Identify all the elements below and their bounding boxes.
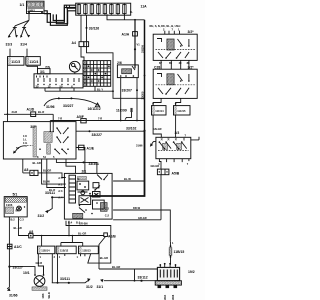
svg-text:BL-W: BL-W xyxy=(43,180,50,184)
connector A1/D xyxy=(4,108,53,132)
central unit 2/1 xyxy=(64,170,112,219)
svg-text:1L: 1L xyxy=(130,10,133,14)
wires between relay boxes xyxy=(159,60,190,69)
wire DR-W from 2/1 to right xyxy=(113,206,170,242)
svg-text:1:L: 1:L xyxy=(23,138,27,142)
svg-text:10/6: 10/6 xyxy=(41,293,45,299)
svg-text:A:3: A:3 xyxy=(58,189,63,193)
headlamp 11B/13 xyxy=(77,246,99,259)
fusebox 11A xyxy=(76,3,147,15)
connector A9 xyxy=(19,217,104,238)
bulb top bus xyxy=(41,235,83,246)
relay box 3/2 upper xyxy=(153,27,197,60)
svg-text:GR-R: GR-R xyxy=(36,261,43,265)
svg-text:19/2: 19/2 xyxy=(188,270,195,274)
ground bus 33/111 31/2 xyxy=(52,277,93,289)
horn arrow 31/3 xyxy=(6,26,19,46)
svg-text:33/227: 33/227 xyxy=(92,133,102,137)
connector A1/C xyxy=(7,244,22,249)
ignition position table xyxy=(83,61,111,87)
svg-text:A1/A: A1/A xyxy=(122,32,130,36)
svg-text:11C/14: 11C/14 xyxy=(155,109,164,113)
headlamp 11B/14 xyxy=(38,246,56,283)
wire 1/1 to horns xyxy=(15,14,29,26)
connector A1/E xyxy=(76,145,95,173)
wire A5/B down to 19/2 xyxy=(160,175,162,220)
svg-text:2/6: 2/6 xyxy=(117,61,122,65)
svg-text:11B/15: 11B/15 xyxy=(174,250,185,254)
svg-text:A:5: A:5 xyxy=(58,176,63,180)
relay 19/2 xyxy=(155,263,195,300)
svg-text:11C/15: 11C/15 xyxy=(177,109,186,113)
svg-text:A1/C: A1/C xyxy=(14,245,22,249)
light switch 3/2 xyxy=(3,122,76,160)
svg-text:33/301: 33/301 xyxy=(89,162,99,166)
pins 5/1 bottom xyxy=(11,217,25,221)
svg-text:3/3: 3/3 xyxy=(175,131,180,135)
svg-text:31/3: 31/3 xyxy=(6,42,13,46)
relay 2/6 xyxy=(117,61,138,78)
svg-text:GR-BN: GR-BN xyxy=(79,222,88,226)
connector A8 on wire to 2/1 xyxy=(23,159,66,178)
svg-text:7-R: 7-R xyxy=(58,117,62,121)
svg-text:31/2: 31/2 xyxy=(86,285,93,289)
lamp 11C/4 xyxy=(26,49,41,66)
svg-text:33/207: 33/207 xyxy=(122,89,132,93)
svg-text:A4: A4 xyxy=(72,41,76,45)
wire GR-GR from 2/1 xyxy=(113,216,161,220)
svg-text:B:2: B:2 xyxy=(11,217,16,221)
svg-text:11B/12: 11B/12 xyxy=(60,248,69,252)
svg-text:31/96: 31/96 xyxy=(136,144,143,148)
wire thick trunk right xyxy=(90,20,146,196)
wire GR-BN from 2/1 xyxy=(66,221,111,263)
wire BL-Y bus xyxy=(45,86,114,92)
svg-text:A1/D: A1/D xyxy=(27,108,35,112)
ground 31/96 xyxy=(136,142,156,148)
pin labels 2/1 left xyxy=(58,176,63,200)
svg-text:33/227: 33/227 xyxy=(63,104,73,108)
svg-text:10/1: 10/1 xyxy=(23,271,30,275)
svg-text:33/111: 33/111 xyxy=(45,191,55,195)
wire 11C/15 to 3/3 xyxy=(175,115,177,137)
connector 1/1 xyxy=(20,1,45,13)
svg-text:11B/13: 11B/13 xyxy=(82,248,91,252)
pin labels 2/1 right xyxy=(68,206,110,224)
svg-text:DR-W: DR-W xyxy=(133,206,141,210)
svg-text:C:2: C:2 xyxy=(105,214,110,218)
headlamp 11B/12 xyxy=(56,246,76,283)
svg-text:SB-R: SB-R xyxy=(47,292,51,298)
svg-text:33/205: 33/205 xyxy=(140,91,144,99)
wire staircase 1/1 to fusebox (pair) xyxy=(53,8,76,24)
wire fuse to trunk xyxy=(107,10,145,46)
horn arrow 31/4 xyxy=(20,26,30,46)
relay box 3/2 lower C28 xyxy=(153,65,197,98)
wires to 2/1 A1 A3 xyxy=(42,159,66,192)
svg-text:A1/E: A1/E xyxy=(87,147,95,151)
svg-text:A:1: A:1 xyxy=(58,182,63,186)
switch 3/3 lower pins xyxy=(158,159,189,166)
svg-text:3/2*: 3/2* xyxy=(188,65,195,69)
rotary arc of switch xyxy=(13,145,33,153)
svg-text:GR-GR: GR-GR xyxy=(138,216,147,220)
svg-text:1:G: 1:G xyxy=(23,141,27,145)
svg-text:A8: A8 xyxy=(24,168,28,172)
svg-text:16/114:2: 16/114:2 xyxy=(88,107,101,111)
thick feed wire with connector A1/A xyxy=(122,19,138,69)
svg-text:31/96: 31/96 xyxy=(46,105,55,109)
connector A4 on main line xyxy=(72,41,89,47)
svg-text:33/111: 33/111 xyxy=(60,277,70,281)
svg-text:BL-GR: BL-GR xyxy=(33,161,41,165)
svg-text:BL-Y: BL-Y xyxy=(97,87,103,91)
svg-text:31/4: 31/4 xyxy=(20,42,27,46)
connector A5/F on feed wire xyxy=(50,108,145,132)
wire staircase 1/1 to fusebox (pair) xyxy=(44,5,76,25)
svg-text:C:3: C:3 xyxy=(105,206,110,210)
svg-text:RH, S, N, DK, NL, B, USA:: RH, S, N, DK, NL, B, USA: xyxy=(150,24,182,28)
svg-text:D: D xyxy=(78,177,80,181)
wire left trunk xyxy=(7,65,9,121)
svg-text:33/126: 33/126 xyxy=(89,26,99,30)
switch 3/3 xyxy=(156,131,199,159)
svg-text:11A: 11A xyxy=(141,4,148,8)
wire A1/B chain down to BL-GR bus xyxy=(99,237,160,270)
label 33/205 rotated xyxy=(140,45,144,53)
bulb 11B/15 xyxy=(169,241,184,265)
svg-text:1:8: 1:8 xyxy=(23,134,27,138)
svg-text:31/1: 31/1 xyxy=(97,285,104,289)
svg-text:V1: V1 xyxy=(137,43,141,47)
wire 33/227 splice to trunk xyxy=(76,130,145,137)
wire A1/C to ground 31/66 xyxy=(7,249,23,297)
svg-text:34-R: 34-R xyxy=(12,110,18,114)
instrument module 5/1 xyxy=(4,193,27,217)
svg-text:BL-R: BL-R xyxy=(38,110,44,114)
svg-text:BL-GR: BL-GR xyxy=(112,265,120,269)
label 33/205 rotated lower xyxy=(140,91,144,99)
ignition switch 3/1 xyxy=(34,61,83,88)
svg-text:X: X xyxy=(71,84,73,88)
svg-text:31/2: 31/2 xyxy=(38,214,45,218)
wire 33/501 xyxy=(56,159,99,174)
svg-text:A1/B: A1/B xyxy=(108,234,116,238)
node 33/207 wires from 2/6 xyxy=(120,78,138,122)
connector A5/B xyxy=(151,159,180,176)
lamp 11C/14 xyxy=(152,98,167,115)
svg-text:11B/14: 11B/14 xyxy=(41,248,50,252)
svg-text:33/205: 33/205 xyxy=(140,45,144,53)
lamp 11C/3 xyxy=(8,49,25,66)
svg-text:33/227: 33/227 xyxy=(13,265,23,269)
wire 5/1 to A1/C xyxy=(9,217,21,244)
wire 2/1 pin to BL-GR bus xyxy=(68,221,86,237)
svg-text:11C/3: 11C/3 xyxy=(11,60,20,64)
svg-text:A5/B: A5/B xyxy=(172,172,180,176)
svg-text:11C/99: 11C/99 xyxy=(116,109,127,113)
svg-text:11C/4: 11C/4 xyxy=(29,60,38,64)
svg-text:C28: C28 xyxy=(154,65,160,69)
svg-text:33/102: 33/102 xyxy=(126,127,136,131)
svg-text:33/112: 33/112 xyxy=(138,275,148,279)
svg-text:BL-GR: BL-GR xyxy=(14,226,22,230)
lamp 11C/15 xyxy=(174,98,191,115)
svg-text:31/66: 31/66 xyxy=(9,293,18,297)
svg-text:C:3: C:3 xyxy=(20,217,25,221)
svg-text:1986: 1986 xyxy=(6,203,13,207)
svg-text:1094: 1094 xyxy=(163,294,167,300)
wire 33/126 node xyxy=(81,15,145,98)
node 33/112 xyxy=(97,269,158,289)
node 33/111 with ground 31/2 xyxy=(38,191,65,218)
svg-text:BL-GR: BL-GR xyxy=(78,232,86,236)
svg-text:BL-W: BL-W xyxy=(124,177,131,181)
svg-text:BL-GR: BL-GR xyxy=(100,256,108,260)
market text RH S N DK NL B USA xyxy=(150,24,182,28)
connector A1/B xyxy=(104,233,116,238)
horn 10/1 xyxy=(9,261,50,299)
svg-text:GN-GR: GN-GR xyxy=(153,127,162,131)
svg-text:7-R: 7-R xyxy=(98,117,102,121)
wire 11C/14 to 3/3 xyxy=(153,115,162,137)
svg-text:1096: 1096 xyxy=(171,294,175,300)
wire BL-W thin from 2/1 to trunk xyxy=(113,177,144,181)
ground arc 31/96 33/227 16/114:2 xyxy=(44,97,101,111)
wire 11C/4 to ignition switch xyxy=(27,65,38,68)
svg-text:3/2*: 3/2* xyxy=(188,30,195,34)
svg-text:5/1: 5/1 xyxy=(13,193,18,197)
svg-text:1/1: 1/1 xyxy=(20,3,25,7)
